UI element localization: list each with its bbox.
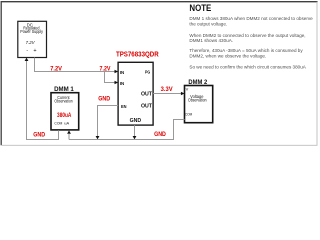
svg-text:Power Supply: Power Supply xyxy=(20,29,43,34)
svg-text:GND: GND xyxy=(98,96,111,102)
wire DMM1 uA to bus xyxy=(68,134,70,140)
svg-text:380uA: 380uA xyxy=(57,113,72,119)
arrow into DMM1 uA xyxy=(67,130,71,133)
wire branch to IN pin2 xyxy=(105,72,116,83)
wire OUT to DMM2 V xyxy=(153,93,181,95)
svg-text:7.2V: 7.2V xyxy=(26,40,36,45)
svg-text:COM: COM xyxy=(54,120,62,125)
svg-text:OUT: OUT xyxy=(141,92,152,98)
svg-text:the output voltage.: the output voltage. xyxy=(189,21,227,26)
svg-text:IN: IN xyxy=(120,70,124,75)
svg-text:EN: EN xyxy=(121,104,127,109)
note paragraph 4 xyxy=(189,65,306,70)
svg-text:7.2V: 7.2V xyxy=(50,67,62,73)
svg-text:V: V xyxy=(186,87,189,92)
svg-text:Observation: Observation xyxy=(188,97,207,102)
note paragraph 1 xyxy=(189,16,313,26)
svg-text:DMM1 shows 430uA.: DMM1 shows 430uA. xyxy=(189,38,233,43)
DMM 1 current meter xyxy=(51,86,79,130)
DMM 2 voltage meter xyxy=(185,79,213,123)
note paragraph 2 xyxy=(189,33,305,43)
svg-text:NOTE: NOTE xyxy=(189,3,211,13)
svg-text:Observation: Observation xyxy=(54,99,73,104)
svg-text:DMM2, when we observe the volt: DMM2, when we observe the voltage. xyxy=(189,54,266,59)
DC regulated power supply PS1 xyxy=(18,21,47,57)
svg-text:DMM 1 shows 380uA when DMM2 no: DMM 1 shows 380uA when DMM2 not connecte… xyxy=(189,16,313,21)
wire EN to ground bus xyxy=(98,106,119,137)
svg-text:COM: COM xyxy=(185,111,192,116)
svg-text:OUT: OUT xyxy=(141,104,152,110)
wire DMM2 COM to bus xyxy=(174,120,185,140)
svg-text:So we need to confirm the whic: So we need to confirm the which circuit … xyxy=(189,65,306,70)
svg-text:3.3V: 3.3V xyxy=(161,87,173,93)
wire U1 GND pin to bus xyxy=(134,125,136,136)
svg-text:uA: uA xyxy=(64,120,69,125)
svg-text:PG: PG xyxy=(145,70,151,75)
svg-text:+: + xyxy=(33,48,36,54)
svg-text:When DMM2 to connected to obse: When DMM2 to connected to observe the ou… xyxy=(189,33,305,38)
svg-text:GND: GND xyxy=(130,118,142,124)
svg-text:GND: GND xyxy=(154,132,166,138)
border frame top-left xyxy=(1,2,317,146)
arrow into IN pin1 xyxy=(115,70,119,74)
arrow GND pin onto bus xyxy=(133,136,137,139)
border frame bottom-right xyxy=(1,2,317,146)
arrow EN wire onto bus xyxy=(96,136,100,139)
note paragraph 3 xyxy=(189,48,303,58)
svg-text:GND: GND xyxy=(33,132,45,138)
wire DMM1 COM to supply minus xyxy=(26,130,59,139)
arrow into DMM2 V xyxy=(181,92,185,96)
regulator U1 TPS76833QDR xyxy=(116,51,159,125)
wire supply plus to IN pin xyxy=(35,58,116,72)
svg-text:7.2V: 7.2V xyxy=(100,67,111,73)
ground bus wire xyxy=(69,139,174,141)
svg-text:TPS76833QDR: TPS76833QDR xyxy=(116,51,159,58)
svg-text:IN: IN xyxy=(120,81,124,86)
wire supply minus to ground bus xyxy=(26,60,28,139)
arrow into IN pin2 xyxy=(115,81,119,85)
arrow into supply minus xyxy=(25,58,29,61)
svg-text:Therefore, 430uA -380uA = 50uA: Therefore, 430uA -380uA = 50uA which is … xyxy=(189,48,303,53)
